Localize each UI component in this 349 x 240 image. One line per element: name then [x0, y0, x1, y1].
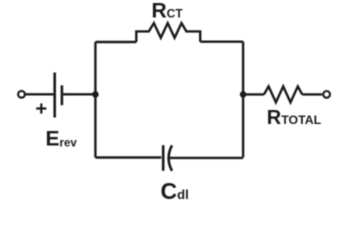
plus sign: [36, 103, 46, 113]
node A (left junction dot): [92, 91, 99, 98]
wire battery-to-node-A: [63, 93, 95, 95]
wire bottom-left of loop: [95, 156, 161, 158]
wire Rtotal-to-terminal: [302, 93, 322, 95]
battery E_rev short plate: [61, 85, 64, 105]
svg-text:Cdl: Cdl: [161, 178, 189, 204]
terminal left (open circle): [18, 91, 25, 98]
resistor R_CT: [136, 23, 200, 42]
wire capacitor-to-right-vertical: [169, 157, 244, 159]
wire node-B-to-Rtotal: [243, 93, 264, 95]
battery E_rev long plate: [53, 73, 56, 118]
resistor R_TOTAL: [264, 86, 302, 102]
wire top-left of loop: [95, 41, 136, 43]
svg-text:RTOTAL: RTOTAL: [267, 107, 322, 129]
wire terminal-to-battery: [25, 93, 53, 95]
wire right vertical of loop: [242, 42, 244, 158]
wire top-right of loop: [200, 41, 243, 43]
svg-text:RCT: RCT: [152, 0, 184, 22]
wire left vertical of loop: [94, 42, 96, 158]
capacitor C_dl flat plate: [162, 145, 165, 171]
svg-text:Erev: Erev: [46, 127, 78, 150]
capacitor C_dl curved plate: [169, 145, 172, 171]
terminal right (open circle): [323, 91, 330, 98]
node B (right junction dot): [240, 91, 247, 98]
